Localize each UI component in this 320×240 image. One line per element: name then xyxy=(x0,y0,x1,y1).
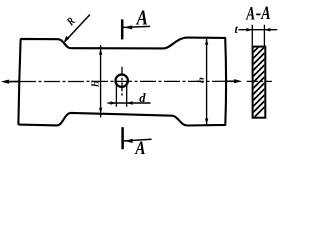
vertical centerline of hole xyxy=(121,67,123,96)
svg-text:R: R xyxy=(64,15,78,29)
dimension h (grip width), vertical dimension line xyxy=(205,38,208,125)
section cut marker, bottom: arrow line xyxy=(124,139,152,141)
leader arrowhead xyxy=(64,36,70,43)
section cut marker, bottom: thick bar xyxy=(121,127,124,149)
svg-text:A: A xyxy=(135,137,146,158)
svg-text:A: A xyxy=(136,7,148,30)
right tension force arrow xyxy=(226,79,242,83)
dimension t: arrowheads xyxy=(246,28,252,32)
dimension H (gauge width), vertical dimension line xyxy=(99,45,102,117)
svg-text:t: t xyxy=(235,24,239,36)
section cut marker, top: arrow line xyxy=(123,26,150,27)
hole (circle) at specimen center xyxy=(116,75,128,87)
section A-A cross-section rectangle xyxy=(253,47,266,118)
section cut marker, top: thick bar xyxy=(121,19,124,39)
svg-text:h: h xyxy=(197,77,206,83)
svg-text:A: A xyxy=(260,2,270,23)
section cut marker, bottom: arrowhead xyxy=(125,139,133,143)
dimension t: extension lines xyxy=(252,25,264,47)
svg-text:H: H xyxy=(90,79,102,88)
fillet radius leader line R xyxy=(65,15,90,42)
hatching of the section xyxy=(248,28,272,124)
specimen outline (dog-bone flat tensile specimen, main view) xyxy=(18,38,226,126)
section cut marker, top: arrowhead xyxy=(124,25,132,29)
dimension t (thickness): dimension line xyxy=(239,29,278,31)
horizontal centerline of specimen (chain line) xyxy=(20,80,226,82)
dimension d of hole: extension lines xyxy=(116,83,126,107)
left tension force arrow xyxy=(1,80,20,84)
svg-text:A: A xyxy=(245,5,255,25)
svg-text:d: d xyxy=(139,91,146,105)
dimension d: dimension line with outside arrows xyxy=(108,101,151,105)
centerline of section view xyxy=(247,80,272,82)
